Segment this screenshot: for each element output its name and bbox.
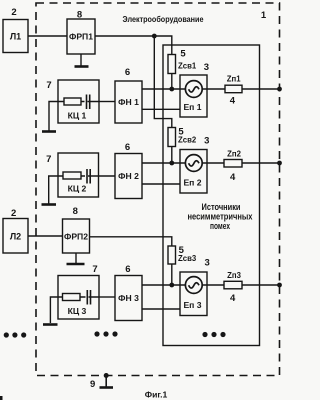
ground (КЦ1) xyxy=(42,130,56,133)
svg-text:6: 6 xyxy=(125,264,130,275)
block ФН 1 xyxy=(115,81,142,123)
svg-text:Л1: Л1 xyxy=(10,32,21,42)
wire internal КЦ2 xyxy=(58,175,99,177)
svg-text:КЦ 3: КЦ 3 xyxy=(68,306,87,316)
wire Еп3 to Zп3 xyxy=(202,284,224,286)
wire Zсв3 to node D xyxy=(171,264,173,285)
node Zп1 output xyxy=(277,87,282,92)
svg-text:8: 8 xyxy=(73,206,78,217)
wire Еп1 to Zп1 xyxy=(202,88,225,90)
svg-text:6: 6 xyxy=(125,142,130,153)
noise sources inner box (Источники несимметричных помех) xyxy=(163,45,260,346)
label 3 (Еп 2) xyxy=(204,136,209,147)
ellipsis dots inner (more sources) xyxy=(202,332,225,337)
svg-text:4: 4 xyxy=(230,293,236,304)
svg-text:Л2: Л2 xyxy=(10,232,21,242)
enclosure 1 (Электрооборудование) dashed border xyxy=(36,3,280,376)
wire Л2 to ФРП2 xyxy=(28,235,63,237)
ellipsis dots middle (more КЦ blocks) xyxy=(94,331,117,336)
label 9 xyxy=(90,379,95,390)
wire Л1 to ФРП1 xyxy=(28,35,67,37)
wire ФРП1 output to Zсв1 (horizontal) xyxy=(95,36,172,55)
svg-text:Zсв2: Zсв2 xyxy=(178,136,197,145)
svg-text:Zп1: Zп1 xyxy=(227,75,241,84)
svg-text:Электрооборудование: Электрооборудование xyxy=(123,14,204,24)
wire Еп2 to Zп2 xyxy=(202,162,224,164)
svg-text:8: 8 xyxy=(77,10,82,21)
label 5 (Zсв1) xyxy=(180,49,186,60)
svg-text:1: 1 xyxy=(261,10,267,21)
block Л2 xyxy=(3,219,28,254)
ground (КЦ3) xyxy=(43,323,58,326)
wire Zсв1 to node B xyxy=(171,74,173,90)
label 2 (Л1) xyxy=(11,7,16,18)
label 4 (Zп2) xyxy=(230,172,236,183)
capacitor (КЦ1 internal) xyxy=(85,95,90,110)
svg-text:КЦ 2: КЦ 2 xyxy=(68,184,87,194)
wire internal КЦ3 xyxy=(58,296,99,298)
scan artifact bottom-left corner xyxy=(0,396,3,400)
label 7 (КЦ 3) xyxy=(92,264,97,275)
label 6 (ФН 3) xyxy=(125,264,130,275)
wire ФРП2 output to Zсв3 xyxy=(90,237,172,246)
wire Zсв2 to node C xyxy=(171,147,173,164)
capacitor (КЦ3 internal) xyxy=(86,290,91,305)
svg-text:3: 3 xyxy=(204,62,209,73)
label 6 (ФН 2) xyxy=(125,142,130,153)
label 8 (ФРП2) xyxy=(73,206,78,217)
svg-text:7: 7 xyxy=(46,154,51,165)
label 8 (ФРП1) xyxy=(77,10,82,21)
svg-text:несимметричных: несимметричных xyxy=(188,212,253,222)
svg-text:9: 9 xyxy=(90,379,95,390)
svg-text:Zсв3: Zсв3 xyxy=(178,254,197,263)
block ФН 3 xyxy=(115,276,142,321)
svg-text:5: 5 xyxy=(180,49,186,60)
wire КЦ3 to ground xyxy=(50,297,58,323)
label Zп2 xyxy=(227,150,241,159)
junction node D (Zсв3 / Еп3) xyxy=(169,283,174,288)
wire ФН1 top output to Еп1 xyxy=(142,88,186,90)
label Zсв3 xyxy=(178,254,197,263)
label 3 (Еп 1) xyxy=(204,62,209,73)
wire КЦ3 to ФН3 xyxy=(99,296,115,298)
svg-text:Zп3: Zп3 xyxy=(227,271,241,280)
ground (ФРП1) xyxy=(75,54,89,67)
resistor (КЦ1 internal) xyxy=(64,98,81,105)
svg-text:Еп 1: Еп 1 xyxy=(183,102,201,112)
resistor (КЦ2 internal) xyxy=(63,172,81,179)
wire Zп2 to border node xyxy=(242,162,280,164)
label 5 (Zсв3) xyxy=(179,245,185,256)
label Zп3 xyxy=(227,271,241,280)
resistor Zсв2 xyxy=(168,128,176,147)
source Еп 1 xyxy=(180,75,207,117)
wire bus node A down to Zсв2 xyxy=(154,36,172,128)
junction node C (Zсв2 / Еп2) xyxy=(169,161,174,166)
svg-text:ФРП2: ФРП2 xyxy=(64,232,88,242)
svg-text:3: 3 xyxy=(204,136,209,147)
block ФРП1 xyxy=(67,19,95,54)
resistor Zсв1 xyxy=(168,55,176,74)
node Zп3 output xyxy=(277,283,282,288)
wire КЦ1 to ground xyxy=(49,102,58,131)
label 3 (Еп 3) xyxy=(204,258,209,269)
wire КЦ1 to ФН1 xyxy=(99,101,115,103)
svg-text:2: 2 xyxy=(11,208,16,219)
svg-text:3: 3 xyxy=(204,258,209,269)
resistor Zп2 xyxy=(224,160,242,168)
wire Zп1 to border node xyxy=(242,88,280,90)
wire КЦ2 to ФН2 xyxy=(99,175,116,177)
svg-text:ФРП1: ФРП1 xyxy=(69,32,93,42)
label 7 (КЦ 2) xyxy=(46,154,51,165)
svg-text:Фиг.1: Фиг.1 xyxy=(145,390,168,400)
wire ФН3 top output to Еп3 xyxy=(142,284,186,286)
label 7 (КЦ 1) xyxy=(46,80,51,91)
block Л1 xyxy=(3,20,28,53)
svg-text:2: 2 xyxy=(11,7,16,18)
label 5 (Zсв2) xyxy=(178,127,184,138)
svg-text:Источники: Источники xyxy=(202,202,241,212)
label 1 (enclosure) xyxy=(261,10,267,21)
ellipsis dots left (more Л blocks) xyxy=(4,332,27,337)
resistor Zп1 xyxy=(225,85,242,93)
svg-text:ФН 1: ФН 1 xyxy=(118,97,139,107)
svg-text:ФН 2: ФН 2 xyxy=(118,171,139,181)
ground (ФРП2) xyxy=(67,253,85,264)
svg-text:Еп 3: Еп 3 xyxy=(183,300,201,310)
svg-text:ФН 3: ФН 3 xyxy=(118,293,139,303)
svg-text:помех: помех xyxy=(210,221,230,231)
label Электрооборудование xyxy=(123,14,204,24)
capacitor (КЦ2 internal) xyxy=(85,169,90,184)
wire ФН2 top output to Еп2 xyxy=(142,162,186,164)
node 9 (common ground on enclosure) xyxy=(104,373,109,378)
wire Zп3 to border node xyxy=(242,284,280,286)
resistor (КЦ3 internal) xyxy=(63,294,81,301)
svg-text:Еп 2: Еп 2 xyxy=(183,178,201,188)
wire ФН1 bottom output to Еп1 box xyxy=(142,108,180,110)
svg-text:Zсв1: Zсв1 xyxy=(178,62,197,71)
wire ФН3 bottom output to Еп3 box xyxy=(142,308,180,310)
svg-text:4: 4 xyxy=(230,172,236,183)
label Zп1 xyxy=(227,75,241,84)
block КЦ 1 xyxy=(58,80,99,123)
ground 9 stem xyxy=(100,376,114,388)
block ФН 2 xyxy=(115,154,142,199)
source Еп 3 xyxy=(180,272,207,316)
label 4 (Zп1) xyxy=(230,96,236,107)
label 6 (ФН 1) xyxy=(125,67,130,78)
block КЦ 3 xyxy=(58,276,99,320)
svg-text:Zп2: Zп2 xyxy=(227,150,241,159)
label Zсв1 xyxy=(178,62,197,71)
svg-text:7: 7 xyxy=(46,80,51,91)
source Еп 2 xyxy=(180,150,207,194)
svg-text:4: 4 xyxy=(230,96,236,107)
label 2 (Л2) xyxy=(11,208,16,219)
junction node B (Zсв1 / Еп1) xyxy=(169,87,174,92)
caption Фиг.1 xyxy=(145,390,168,400)
resistor Zп3 xyxy=(224,281,242,289)
wire internal КЦ1 xyxy=(58,101,99,103)
block ФРП2 xyxy=(63,219,90,253)
wire ФН2 bottom output to Еп2 box xyxy=(142,183,180,185)
node Zп2 output xyxy=(277,161,282,166)
block КЦ 2 xyxy=(58,153,99,197)
wire КЦ2 to ground xyxy=(49,176,58,204)
svg-text:7: 7 xyxy=(92,264,97,275)
svg-text:6: 6 xyxy=(125,67,130,78)
svg-text:КЦ 1: КЦ 1 xyxy=(68,111,87,121)
resistor Zсв3 xyxy=(168,246,176,264)
junction node A (ФРП1 bus tap) xyxy=(152,34,157,39)
label Источники несимметричных помех xyxy=(188,202,253,231)
label 4 (Zп3) xyxy=(230,293,236,304)
label Zсв2 xyxy=(178,136,197,145)
ground (КЦ2) xyxy=(42,203,57,206)
